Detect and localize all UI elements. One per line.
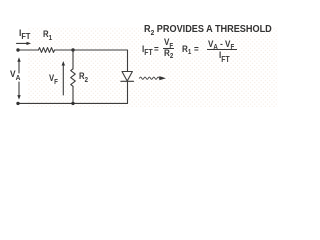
- label R1 (resistor): [43, 30, 52, 39]
- wire top rail left segment: [18, 49, 39, 51]
- label IFT (current): [19, 29, 30, 38]
- wire R2 branch upper: [72, 50, 74, 69]
- heading R2 PROVIDES A THRESHOLD: [144, 25, 272, 35]
- wire bottom rail: [18, 102, 128, 104]
- light emission squiggle arrow: [140, 76, 167, 80]
- wire diode branch upper: [127, 50, 129, 72]
- label R2 (resistor): [79, 72, 88, 81]
- voltage arrow VA up: [17, 57, 20, 73]
- node junction dot top R2 branch: [71, 48, 74, 51]
- halftone dot background texture: [0, 0, 320, 121]
- resistor R1: [39, 48, 55, 53]
- wire top rail right segment: [55, 49, 128, 51]
- node junction dot bottom-left: [16, 102, 19, 105]
- LED diode triangle: [122, 72, 132, 82]
- wire diode branch lower: [127, 81, 129, 103]
- resistor R2: [71, 69, 76, 87]
- circuit schematic drawing: [0, 0, 320, 121]
- node junction dot bottom R2 branch: [71, 102, 74, 105]
- equation 2: R1 = (VA - VF)/IFT: [182, 45, 191, 54]
- equation 1: IFT = VF/R2: [142, 45, 153, 54]
- label VF (voltage): [49, 74, 58, 83]
- LED cathode bar: [121, 80, 134, 82]
- node junction dot top-left: [16, 48, 19, 51]
- current arrow IFT: [17, 42, 32, 45]
- voltage arrow VF up: [62, 61, 65, 95]
- wire R2 branch lower: [72, 86, 74, 103]
- label VA (voltage): [10, 70, 20, 79]
- voltage arrow VA down: [17, 82, 20, 100]
